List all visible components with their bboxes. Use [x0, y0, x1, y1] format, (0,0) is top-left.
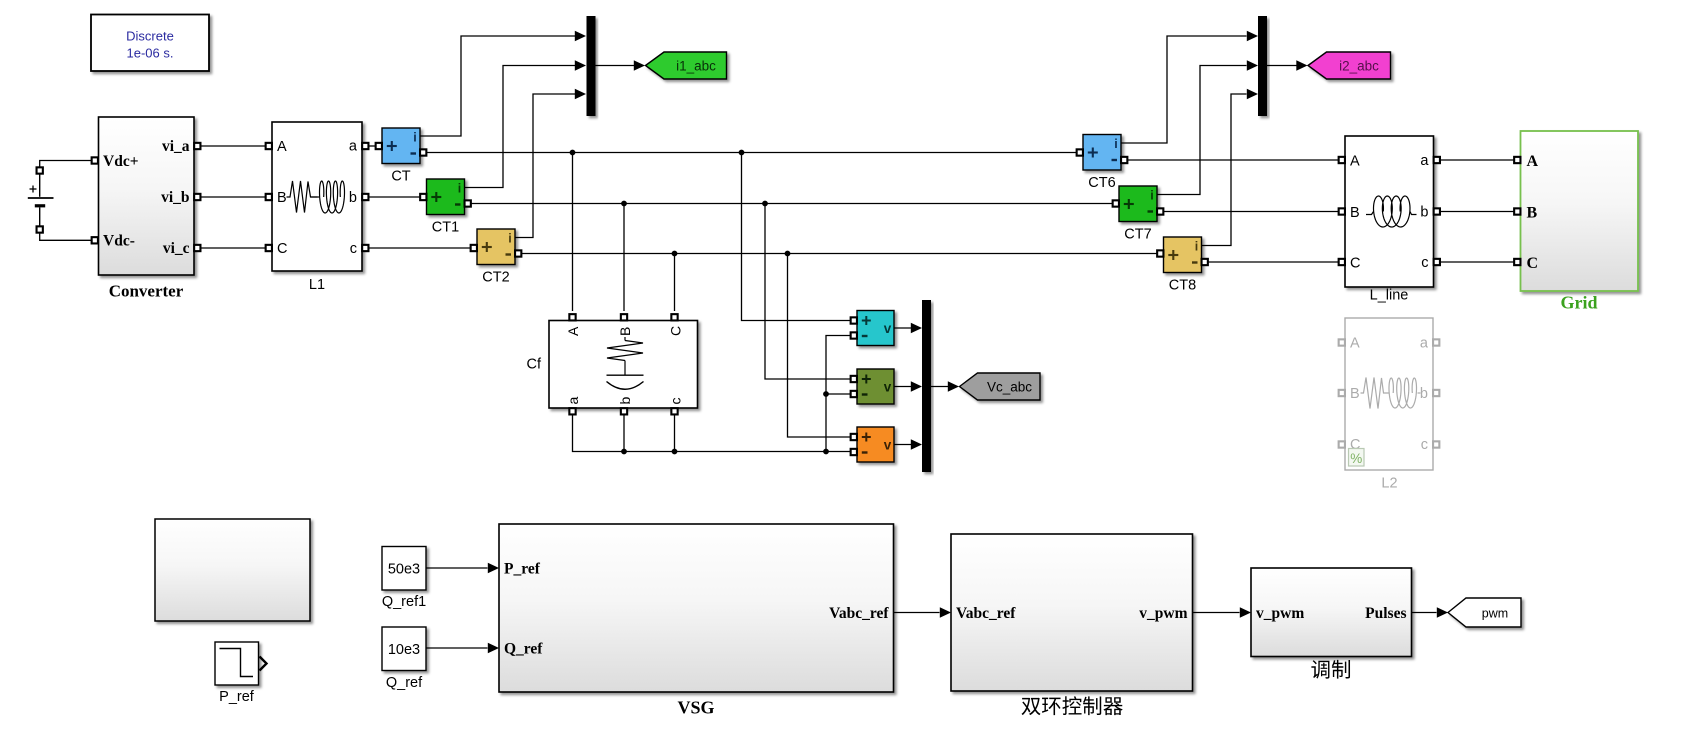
- wire CT8 to L_line C: [1208, 261, 1339, 263]
- svg-text:i: i: [458, 182, 461, 196]
- wire phase B drop to Cf B: [623, 204, 625, 312]
- mux i1: [587, 16, 596, 116]
- subsystem block dual-loop controller: [951, 534, 1193, 691]
- Converter ports: [92, 143, 201, 251]
- svg-text:B: B: [617, 327, 633, 336]
- svg-text:10e3: 10e3: [388, 642, 420, 658]
- node phase C to V sensor: [785, 251, 791, 257]
- svg-text:Pulses: Pulses: [1365, 605, 1406, 622]
- wire L_line a to Grid A: [1440, 159, 1514, 161]
- svg-text:B: B: [1350, 386, 1360, 402]
- svg-text:L1: L1: [309, 277, 325, 293]
- svg-text:i: i: [508, 232, 511, 246]
- svg-text:1e-06 s.: 1e-06 s.: [127, 46, 174, 61]
- svg-text:i: i: [1114, 137, 1117, 151]
- node phase A to V sensor: [739, 150, 745, 156]
- current sensor CT7: [1119, 186, 1157, 222]
- wire phase A line CT to CT6: [427, 152, 1077, 154]
- V2 ports: [851, 376, 857, 397]
- svg-text:v: v: [884, 380, 892, 395]
- svg-text:50e3: 50e3: [388, 561, 420, 577]
- svg-text:A: A: [1350, 336, 1360, 352]
- svg-text:CT2: CT2: [482, 270, 509, 286]
- svg-text:Q_ref1: Q_ref1: [382, 594, 426, 610]
- svg-text:A: A: [277, 139, 287, 155]
- wire CT6 to L_line A: [1128, 159, 1339, 161]
- Cf ports: [569, 314, 677, 414]
- wire neutral riser: [826, 336, 851, 452]
- svg-text:b: b: [1420, 205, 1428, 221]
- svg-text:A: A: [1527, 153, 1539, 170]
- svg-text:Vc_abc: Vc_abc: [987, 379, 1032, 394]
- L1 ports: [266, 143, 369, 251]
- wire VSG to controller: [894, 612, 940, 614]
- wire CT1 i to mux1: [465, 60, 587, 187]
- svg-text:A: A: [1350, 153, 1360, 169]
- wire controller to modulator: [1193, 612, 1240, 614]
- wire battery- to Vdc-: [40, 233, 92, 240]
- svg-text:Vabc_ref: Vabc_ref: [829, 605, 889, 622]
- wire Cf a to bus: [573, 415, 851, 452]
- label CT2: [482, 270, 509, 286]
- wire V2 to mux3: [894, 386, 911, 388]
- svg-text:c: c: [668, 398, 684, 405]
- svg-text:a: a: [1420, 153, 1429, 169]
- svg-text:c: c: [1421, 255, 1428, 271]
- label Converter: [109, 282, 184, 301]
- battery terminal ports: [37, 167, 43, 232]
- wire modulator to pwm tag: [1412, 612, 1437, 614]
- svg-text:L_line: L_line: [1370, 288, 1409, 304]
- label VSG: [677, 698, 714, 718]
- CT7 ports: [1113, 200, 1164, 214]
- wire mux1 to i1_abc: [596, 65, 635, 67]
- svg-text:pwm: pwm: [1482, 606, 1508, 620]
- subsystem block Converter: [99, 117, 195, 275]
- svg-text:c: c: [1421, 437, 1428, 453]
- three-phase RL branch L2 (commented out): [1345, 318, 1433, 470]
- three-phase RC filter Cf: [549, 321, 698, 409]
- label L_line: [1370, 288, 1409, 304]
- node neutral to V2-: [823, 391, 829, 397]
- svg-text:Discrete: Discrete: [126, 29, 174, 44]
- svg-text:v: v: [884, 438, 892, 453]
- wire Cf c to bus: [674, 415, 676, 452]
- CT ports: [376, 143, 427, 156]
- mux Vc: [922, 300, 931, 472]
- label CT1: [432, 220, 459, 236]
- current sensor CT2: [477, 229, 515, 265]
- current sensor CT8: [1164, 237, 1202, 273]
- svg-text:C: C: [1350, 255, 1360, 271]
- label Grid: [1560, 293, 1597, 313]
- wire CT i to mux1: [420, 31, 586, 136]
- subsystem block Grid: [1521, 131, 1639, 291]
- svg-text:P_ref: P_ref: [504, 561, 541, 578]
- label L1: [309, 277, 325, 293]
- svg-text:i: i: [1150, 189, 1153, 203]
- wire neutral to V2-: [826, 393, 851, 395]
- svg-text:Grid: Grid: [1560, 293, 1597, 313]
- svg-text:v_pwm: v_pwm: [1139, 605, 1187, 622]
- wire vi_b to L1 B: [201, 196, 266, 198]
- wire phase A to V1+: [742, 153, 851, 321]
- wire L_line c to Grid C: [1440, 261, 1514, 263]
- wire CT7 to L_line B: [1164, 211, 1339, 213]
- goto tag i2_abc: [1308, 52, 1391, 79]
- wire L1 b to CT1: [369, 196, 421, 198]
- Grid ports: [1514, 157, 1520, 265]
- node bus b: [621, 449, 627, 455]
- svg-text:L2: L2: [1381, 476, 1397, 492]
- wire Cf b to bus: [623, 415, 625, 452]
- label L2: [1381, 476, 1397, 492]
- svg-text:Q_ref: Q_ref: [386, 675, 423, 691]
- goto tag pwm: [1448, 598, 1521, 627]
- goto tag i1_abc: [646, 52, 727, 79]
- L2 ports: [1339, 339, 1440, 447]
- wire phase C drop to Cf C: [674, 254, 676, 312]
- svg-text:i1_abc: i1_abc: [676, 58, 716, 73]
- wire L1 a to CT: [369, 145, 376, 147]
- label Cf: [527, 357, 542, 373]
- subsystem block modulation: [1251, 568, 1412, 657]
- wire V3 to mux3: [894, 444, 911, 446]
- voltage sensor V3: [857, 427, 894, 462]
- svg-text:c: c: [350, 241, 357, 257]
- svg-text:CT: CT: [391, 169, 410, 185]
- label Q_ref1: [382, 594, 426, 610]
- svg-text:CT8: CT8: [1169, 278, 1196, 294]
- wire mux3 to Vc_abc: [931, 386, 948, 388]
- wire CT6 i to mux2: [1121, 31, 1258, 143]
- node phase B to Cf: [621, 201, 627, 207]
- node bus to neutral riser: [823, 449, 829, 455]
- P_ref output chevron: [260, 657, 267, 671]
- label CT8: [1169, 278, 1196, 294]
- L_line ports: [1339, 157, 1440, 265]
- wire L1 c to CT2: [369, 247, 471, 249]
- svg-text:i: i: [413, 131, 416, 145]
- label CT: [391, 169, 410, 185]
- label dual-loop controller (CJK): [1022, 696, 1123, 715]
- wire phase A drop to Cf A: [572, 153, 574, 312]
- label P_ref: [219, 689, 255, 705]
- wire vi_a to L1 A: [201, 145, 266, 147]
- voltage sensor V1: [857, 311, 894, 346]
- wire phase C to V3+: [788, 254, 851, 438]
- wire mux2 to i2_abc: [1267, 65, 1297, 67]
- goto tag Vc_abc: [960, 373, 1041, 400]
- wire CT7 i to mux2: [1157, 60, 1258, 194]
- CT6 ports: [1077, 149, 1128, 163]
- svg-text:Converter: Converter: [109, 282, 184, 301]
- node phase A to Cf: [570, 150, 576, 156]
- wire V1 to mux3: [894, 327, 911, 329]
- CT8 ports: [1157, 250, 1208, 265]
- svg-text:v: v: [884, 321, 892, 336]
- wire battery+ to Vdc+: [40, 161, 92, 168]
- wire CT8 i to mux2: [1202, 89, 1259, 246]
- svg-text:i2_abc: i2_abc: [1339, 58, 1379, 73]
- svg-text:C: C: [668, 326, 684, 336]
- svg-text:Cf: Cf: [527, 357, 542, 373]
- svg-text:A: A: [565, 326, 581, 336]
- voltage sensor V2: [857, 369, 894, 404]
- label modulation (CJK): [1311, 660, 1350, 679]
- current sensor CT: [382, 128, 420, 164]
- svg-text:%: %: [1350, 451, 1362, 466]
- svg-text:b: b: [617, 397, 633, 405]
- CT2 ports: [471, 245, 522, 257]
- svg-text:v_pwm: v_pwm: [1256, 605, 1304, 622]
- wire 10e3 to VSG Q_ref: [426, 647, 488, 649]
- wire 50e3 to VSG P_ref: [426, 567, 488, 569]
- label Q_ref: [386, 675, 423, 691]
- label CT7: [1124, 227, 1151, 243]
- svg-text:Vdc-: Vdc-: [103, 233, 135, 250]
- svg-text:vi_c: vi_c: [163, 240, 190, 257]
- mux i2: [1258, 16, 1267, 116]
- empty subsystem block: [155, 519, 310, 621]
- three-phase inductor L_line: [1345, 136, 1434, 287]
- wire phase B to V2+: [765, 204, 851, 380]
- label CT6: [1088, 175, 1115, 191]
- svg-text:Vdc+: Vdc+: [103, 153, 139, 170]
- svg-text:B: B: [277, 190, 287, 206]
- svg-text:VSG: VSG: [677, 698, 714, 718]
- wire L_line b to Grid B: [1440, 211, 1514, 213]
- svg-text:B: B: [1350, 205, 1360, 221]
- svg-text:C: C: [1527, 255, 1539, 272]
- svg-text:B: B: [1527, 205, 1538, 222]
- svg-text:a: a: [349, 139, 358, 155]
- svg-text:vi_b: vi_b: [161, 189, 189, 206]
- svg-text:CT7: CT7: [1124, 227, 1151, 243]
- wire phase C line CT2 to CT8: [522, 253, 1158, 255]
- svg-text:i: i: [1195, 240, 1198, 254]
- svg-text:a: a: [565, 397, 581, 405]
- DC voltage source Vdc battery: [28, 174, 54, 226]
- wire vi_c to L1 C: [201, 247, 266, 249]
- svg-text:CT1: CT1: [432, 220, 459, 236]
- svg-text:a: a: [1420, 336, 1429, 352]
- V3 ports: [851, 434, 857, 455]
- wire phase B line CT1 to CT7: [471, 203, 1113, 205]
- powergui block Discrete: [91, 15, 209, 72]
- constant Q_ref1 50e3: [382, 547, 426, 591]
- constant Q_ref 10e3: [382, 627, 426, 671]
- svg-text:Vabc_ref: Vabc_ref: [956, 605, 1016, 622]
- svg-text:P_ref: P_ref: [219, 689, 255, 705]
- L2 comment badge: [1349, 449, 1365, 467]
- svg-text:vi_a: vi_a: [162, 138, 190, 155]
- step source P_ref: [215, 642, 259, 685]
- V1 ports: [851, 317, 857, 338]
- node phase C to Cf: [672, 251, 678, 257]
- CT1 ports: [420, 194, 471, 207]
- svg-text:Q_ref: Q_ref: [504, 641, 543, 658]
- svg-text:b: b: [349, 190, 357, 206]
- wire CT2 i to mux1: [515, 89, 586, 238]
- current sensor CT6: [1083, 135, 1121, 171]
- subsystem block VSG: [499, 524, 894, 692]
- three-phase RL branch L1: [272, 122, 362, 271]
- svg-text:b: b: [1420, 386, 1428, 402]
- svg-text:C: C: [277, 241, 287, 257]
- node phase B to V sensor: [762, 201, 768, 207]
- current sensor CT1: [427, 179, 465, 215]
- node bus c: [672, 449, 678, 455]
- svg-text:CT6: CT6: [1088, 175, 1115, 191]
